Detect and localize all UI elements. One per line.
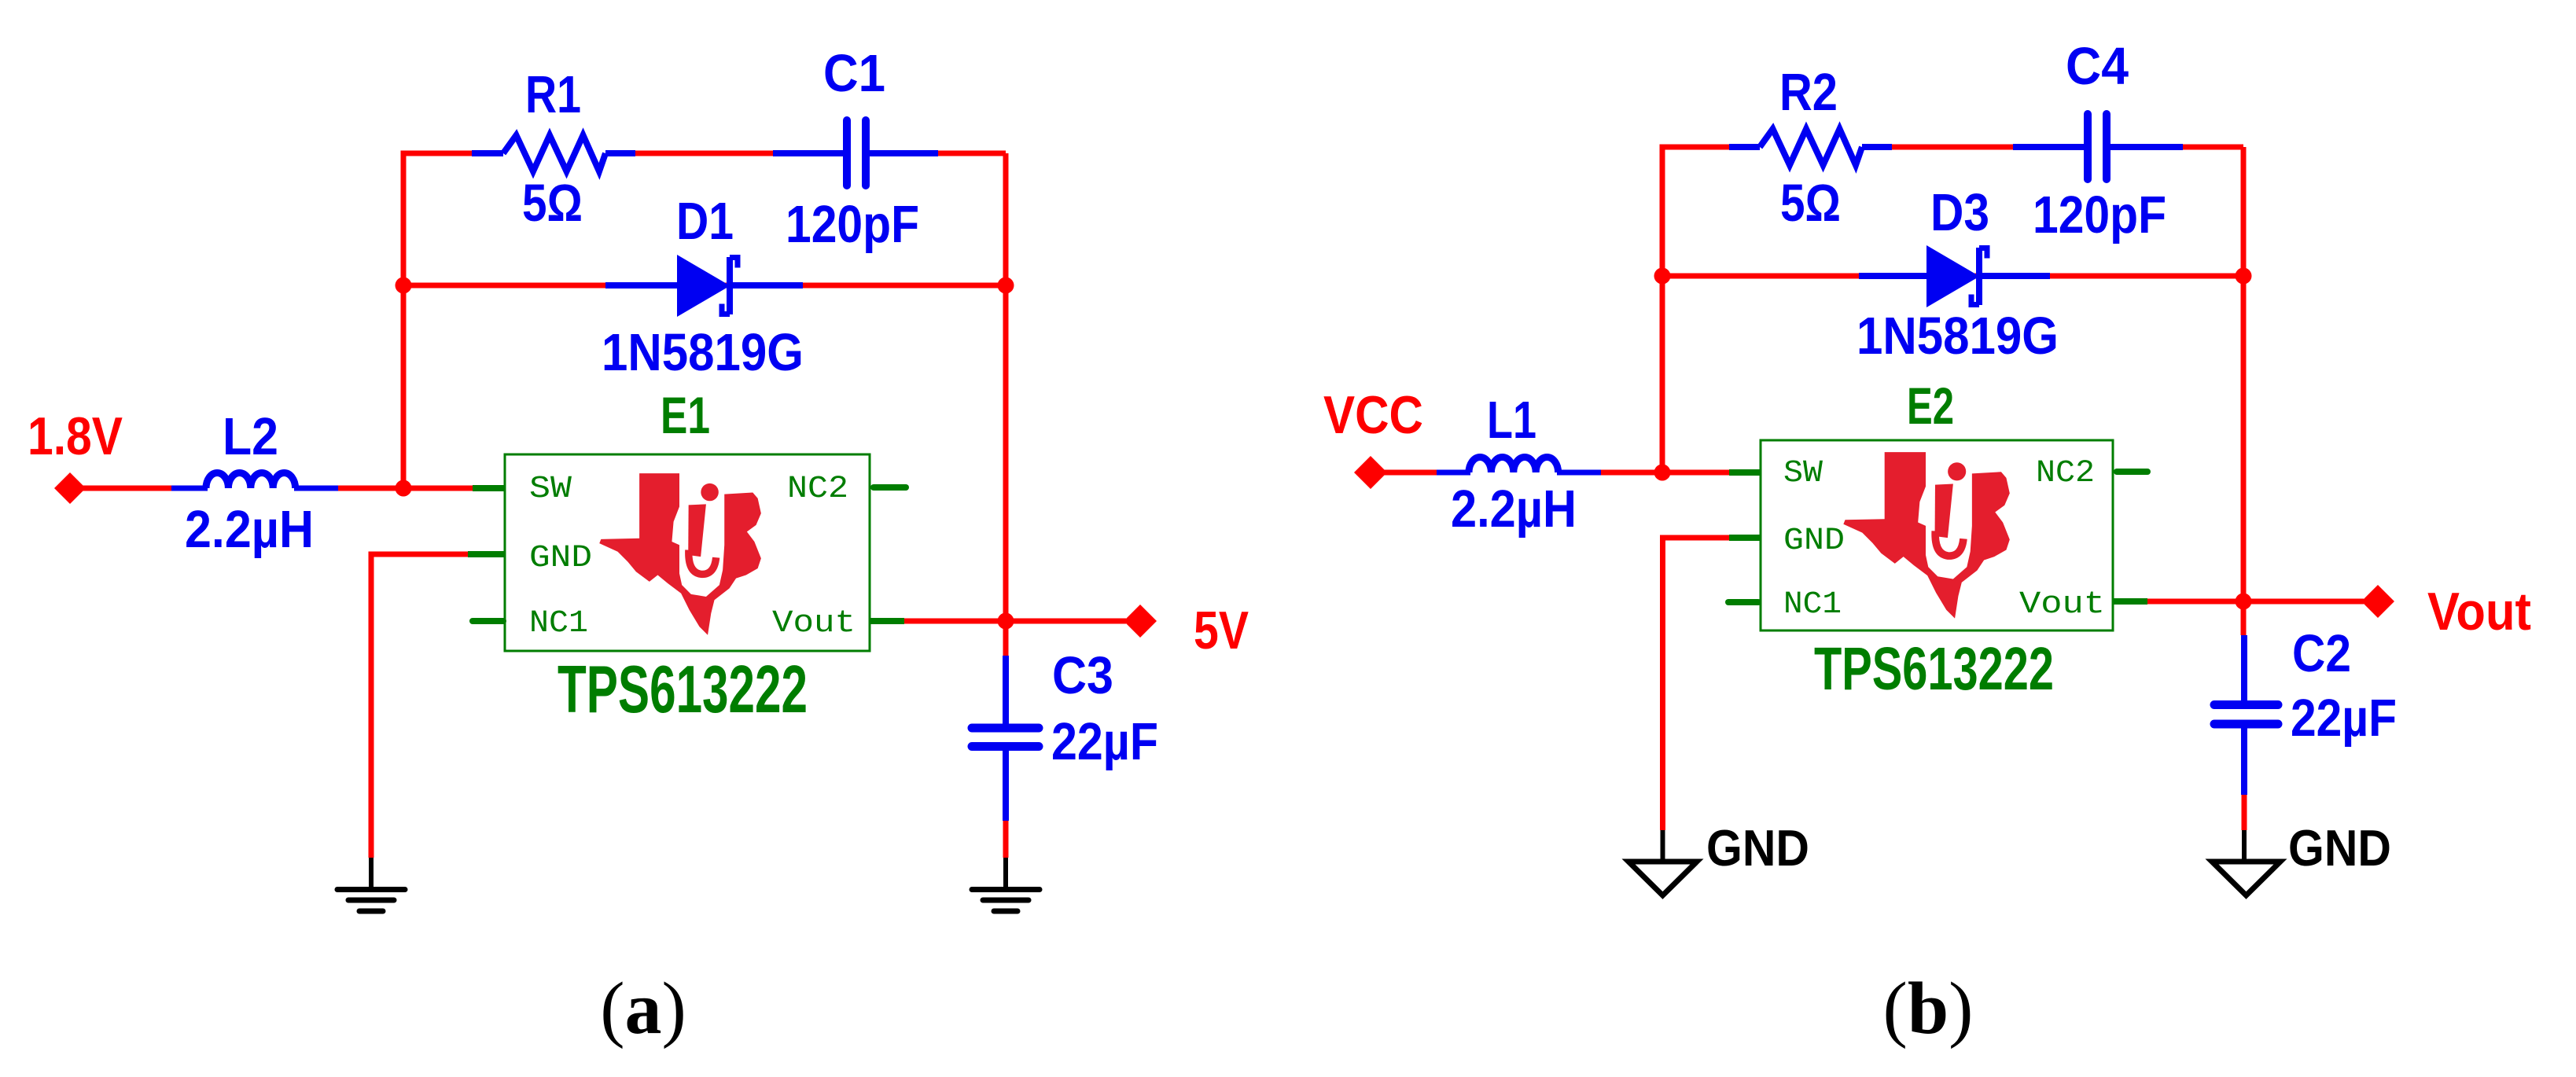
svg-text:C4: C4 — [2066, 37, 2129, 96]
svg-text:1N5819G: 1N5819G — [1857, 307, 2059, 366]
node 5V diamond — [1124, 605, 1157, 638]
svg-text:1.8V: 1.8V — [28, 406, 123, 466]
svg-text:120pF: 120pF — [786, 195, 919, 254]
ground stub left (black) — [1661, 830, 1665, 859]
svg-text:VCC: VCC — [1323, 385, 1423, 445]
wire: GND pin route down — [371, 554, 505, 858]
svg-text:E1: E1 — [661, 386, 710, 444]
pin Vout stub — [870, 618, 904, 624]
GND triangle right — [2212, 862, 2280, 895]
pin Vout stub — [2113, 598, 2147, 605]
svg-text:L2: L2 — [223, 407, 278, 466]
svg-text:NC2: NC2 — [2036, 456, 2095, 491]
ground stub right (black) — [2242, 830, 2247, 859]
svg-text:22µF: 22µF — [1051, 712, 1158, 771]
diode D1 1N5819G — [605, 255, 803, 317]
svg-text:D3: D3 — [1930, 183, 1989, 242]
svg-text:GND: GND — [1783, 524, 1845, 559]
svg-text:SW: SW — [529, 472, 572, 507]
svg-text:GND: GND — [2288, 819, 2391, 877]
svg-text:SW: SW — [1783, 456, 1823, 491]
capacitor C4 — [2013, 114, 2183, 179]
svg-text:L1: L1 — [1487, 391, 1536, 450]
svg-text:D1: D1 — [676, 192, 734, 251]
wire: diode rail — [403, 283, 1006, 289]
svg-text:2.2µH: 2.2µH — [185, 500, 314, 559]
TI logo E2 — [1843, 452, 2009, 618]
node 1.8V diamond — [54, 472, 86, 504]
resistor R1 — [472, 135, 635, 171]
pin GND stub — [1729, 535, 1761, 541]
junction node diode rail right — [998, 278, 1014, 294]
pin GND stub — [468, 551, 505, 557]
capacitor C1 — [773, 120, 938, 186]
node VCC diamond — [1354, 456, 1387, 489]
wire: GND pin route down — [1663, 538, 1761, 830]
svg-text:TPS613222: TPS613222 — [558, 652, 808, 727]
pin SW stub — [1729, 469, 1761, 476]
wire: input feed VCC to SW node — [1371, 470, 1729, 476]
wire: below C3 — [1003, 751, 1009, 858]
svg-text:2.2µH: 2.2µH — [1451, 480, 1577, 538]
junction node Vout — [998, 613, 1014, 630]
svg-text:22µF: 22µF — [2291, 689, 2397, 748]
svg-text:TPS613222: TPS613222 — [1814, 635, 2054, 703]
junction node at SW — [396, 480, 412, 497]
wire: left vertical + top rail + right vertical — [403, 153, 1006, 656]
svg-text:C3: C3 — [1052, 646, 1113, 705]
earth ground left — [337, 890, 405, 912]
pin NC1 stub — [473, 618, 503, 624]
svg-text:5Ω: 5Ω — [1780, 174, 1841, 233]
ground stub left (black) — [369, 858, 374, 888]
junction node diode rail left — [1654, 268, 1671, 285]
svg-text:Vout: Vout — [2019, 587, 2105, 623]
svg-text:(a): (a) — [600, 968, 686, 1049]
inductor L2 — [171, 473, 338, 489]
svg-text:E2: E2 — [1907, 377, 1954, 435]
wire: diode rail — [1662, 274, 2243, 279]
earth ground right — [972, 890, 1040, 912]
svg-text:Vout: Vout — [772, 606, 856, 641]
pin NC2 stub — [2117, 469, 2147, 475]
wire: left vertical + top rail + right vertical — [1662, 147, 2243, 635]
wire: Vout row to 5V — [870, 619, 1126, 624]
svg-text:5Ω: 5Ω — [522, 174, 583, 233]
svg-text:GND: GND — [529, 541, 592, 576]
GND triangle left — [1628, 862, 1697, 895]
svg-text:C1: C1 — [823, 44, 885, 103]
IC E2 box — [1761, 440, 2113, 630]
svg-text:NC2: NC2 — [787, 472, 848, 507]
pin NC2 stub — [874, 484, 906, 491]
diode D3 1N5819G — [1859, 245, 2050, 307]
IC E1 box — [505, 454, 870, 651]
junction node diode rail left — [396, 278, 412, 294]
junction node Vout — [2236, 594, 2252, 610]
svg-text:120pF: 120pF — [2033, 186, 2166, 244]
svg-text:5V: 5V — [1194, 601, 1249, 660]
capacitor C3 — [972, 656, 1039, 821]
svg-text:R1: R1 — [525, 65, 581, 124]
wire: Vout row — [2113, 599, 2364, 605]
TI logo E1 — [599, 473, 761, 635]
svg-text:R2: R2 — [1779, 63, 1838, 122]
junction node at SW — [1654, 465, 1671, 481]
svg-text:GND: GND — [1706, 819, 1809, 877]
junction node diode rail right — [2236, 268, 2252, 285]
pin SW stub — [473, 485, 505, 491]
svg-text:C2: C2 — [2292, 624, 2351, 683]
ground stub right (black) — [1003, 858, 1008, 888]
svg-text:(b): (b) — [1883, 968, 1974, 1049]
node Vout diamond — [2361, 585, 2394, 618]
wire: input feed 1.8V to SW node — [70, 486, 473, 491]
pin NC1 stub — [1728, 599, 1758, 605]
inductor L1 — [1437, 458, 1601, 473]
resistor R2 — [1729, 129, 1892, 165]
svg-text:NC1: NC1 — [1783, 587, 1842, 623]
svg-text:1N5819G: 1N5819G — [602, 323, 804, 382]
svg-text:NC1: NC1 — [529, 606, 588, 641]
capacitor C2 — [2214, 635, 2278, 795]
svg-text:Vout: Vout — [2427, 582, 2531, 641]
